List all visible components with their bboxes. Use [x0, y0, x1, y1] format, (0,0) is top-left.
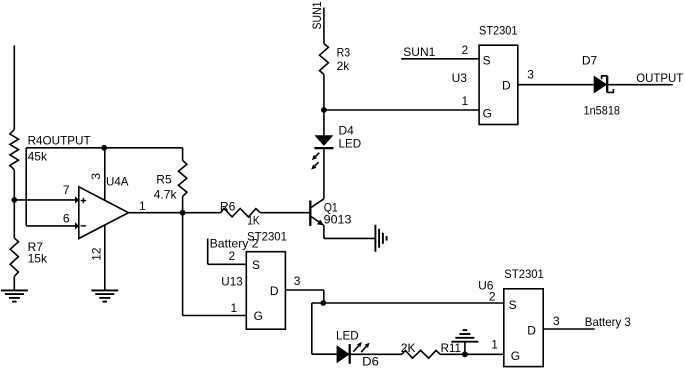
- node: ground stub junction: [462, 351, 468, 357]
- wire: D4 anode up to junction: [323, 110, 325, 135]
- svg-text:S: S: [509, 298, 517, 312]
- mosfet U3 ST2301: [452, 23, 518, 124]
- node: pin3 junction on OUTPUT net: [101, 145, 107, 151]
- svg-text:7: 7: [63, 183, 70, 197]
- wire: left rail bottom: [13, 276, 15, 290]
- wire: op-amp output (pin 1): [129, 199, 221, 213]
- wire: R6 to Q1 base: [260, 212, 309, 214]
- svg-text:R3: R3: [337, 46, 351, 60]
- svg-text:15k: 15k: [28, 251, 48, 265]
- svg-text:3: 3: [553, 314, 560, 328]
- svg-text:3: 3: [527, 68, 534, 82]
- svg-text:6: 6: [63, 212, 70, 226]
- LED D6: [336, 328, 379, 368]
- svg-text:1: 1: [139, 199, 146, 213]
- wire: U3 drain (pin 3) to D7: [518, 68, 594, 85]
- svg-text:D: D: [502, 78, 511, 92]
- svg-text:R6: R6: [220, 200, 236, 214]
- svg-text:ST2301: ST2301: [479, 23, 518, 37]
- transistor Q1 9013: [310, 199, 351, 227]
- svg-text:D: D: [527, 324, 536, 338]
- svg-text:3: 3: [294, 274, 301, 288]
- svg-text:1: 1: [231, 301, 238, 315]
- wire: feedback vertical: [25, 148, 27, 226]
- ground (op-amp pin 12): [91, 290, 118, 301]
- wire: R11 to U6 gate (pin 1): [440, 338, 504, 355]
- svg-text:2K: 2K: [401, 341, 416, 355]
- wire: R3 to junction: [323, 75, 325, 111]
- svg-text:45k: 45k: [28, 150, 48, 164]
- wire: OUTPUT net (R4OUTPUT label wire): [26, 147, 182, 149]
- ground (Q1 emitter, rotated right): [375, 225, 386, 252]
- svg-text:R5: R5: [156, 173, 172, 187]
- op-amp U4A: [79, 174, 129, 238]
- svg-text:Battery 3: Battery 3: [585, 315, 631, 329]
- wire: Q1 emitter to ground: [323, 225, 325, 238]
- wire: op-amp -input (pin 6): [26, 212, 79, 230]
- LED D4: [311, 123, 361, 169]
- svg-text:R11: R11: [441, 341, 462, 355]
- wire: bottom rail to U6 source: [312, 302, 504, 304]
- node: U13 pin3 / bottom rail junction: [320, 300, 326, 306]
- resistor R6 1K: [220, 200, 261, 228]
- node: rail / pin7 junction: [11, 197, 17, 203]
- svg-text:2: 2: [229, 249, 236, 263]
- svg-text:LED: LED: [339, 137, 362, 151]
- svg-text:OUTPUT: OUTPUT: [636, 71, 684, 85]
- wire: Battery 2 to U13 source (pin 2): [208, 249, 247, 264]
- ground (rotated up, at R11/U6 gate): [451, 330, 478, 354]
- svg-text:D6: D6: [362, 355, 379, 369]
- resistor R3 2k: [320, 44, 351, 75]
- wire: U13 drain (pin 3): [285, 274, 323, 303]
- svg-text:1n5818: 1n5818: [584, 103, 621, 117]
- svg-text:G: G: [483, 106, 492, 120]
- svg-text:G: G: [511, 349, 520, 363]
- resistor R5 4.7k: [154, 148, 187, 213]
- wire: Q1 collector to LED D4: [323, 148, 325, 199]
- svg-text:1: 1: [491, 338, 498, 352]
- node: output / R5 / R6 junction: [180, 210, 186, 216]
- svg-text:1K: 1K: [247, 214, 260, 228]
- svg-text:SUN1: SUN1: [403, 45, 435, 59]
- svg-text:2k: 2k: [337, 59, 351, 73]
- svg-text:D7: D7: [582, 54, 598, 68]
- wire: D6 to R11: [350, 353, 402, 355]
- wire: junction to U3 gate (pin 1): [324, 94, 479, 110]
- svg-text:1: 1: [462, 94, 469, 108]
- op-amp U4A pin 12: [89, 225, 105, 291]
- svg-text:U4A: U4A: [106, 174, 128, 188]
- svg-text:LED: LED: [336, 328, 359, 342]
- ground (left rail): [1, 290, 28, 301]
- wire: U6 drain (pin 3) / net label Battery 3: [543, 314, 631, 329]
- net label SUN1 wire to U3 pin 2: [401, 43, 479, 59]
- net label Battery 2 with stub: [208, 237, 259, 265]
- svg-text:D4: D4: [339, 123, 355, 137]
- svg-text:2: 2: [462, 43, 469, 57]
- resistor R4 45k (on left rail): [10, 130, 91, 170]
- wire: down branch to U13 gate (pin 1): [183, 213, 247, 316]
- svg-text:SUN1: SUN1: [310, 1, 324, 29]
- svg-text:U13: U13: [221, 275, 243, 289]
- resistor R11 2K: [401, 341, 462, 358]
- svg-text:9013: 9013: [324, 213, 352, 227]
- resistor R7 15k: [10, 238, 48, 277]
- wire: bottom rail corner down to LED D6: [311, 303, 313, 354]
- svg-text:2: 2: [489, 289, 496, 303]
- mosfet U6 ST2301: [478, 267, 544, 367]
- svg-text:U3: U3: [452, 71, 468, 85]
- svg-text:D: D: [270, 284, 279, 298]
- svg-text:ST2301: ST2301: [504, 267, 544, 281]
- svg-text:S: S: [483, 54, 491, 68]
- svg-text:4.7k: 4.7k: [154, 187, 178, 201]
- diode D7 1n5818 (schottky): [582, 54, 620, 118]
- svg-text:R4OUTPUT: R4OUTPUT: [28, 134, 92, 148]
- wire: left rail top: [13, 45, 15, 129]
- svg-text:ST2301: ST2301: [247, 230, 287, 244]
- node: R3 / D4 / U3-G junction: [321, 107, 327, 113]
- svg-text:12: 12: [89, 247, 103, 261]
- wire: left rail middle: [13, 170, 15, 238]
- svg-text:3: 3: [89, 173, 103, 180]
- wire: SUN1 down to R3: [323, 8, 325, 44]
- svg-text:G: G: [254, 309, 263, 323]
- wire / net label OUTPUT: [607, 71, 684, 85]
- op-amp U4A pin 3: [89, 148, 105, 200]
- wire: op-amp +input (pin 7): [14, 183, 79, 203]
- svg-text:S: S: [252, 258, 260, 272]
- mosfet U13 ST2301: [221, 230, 287, 330]
